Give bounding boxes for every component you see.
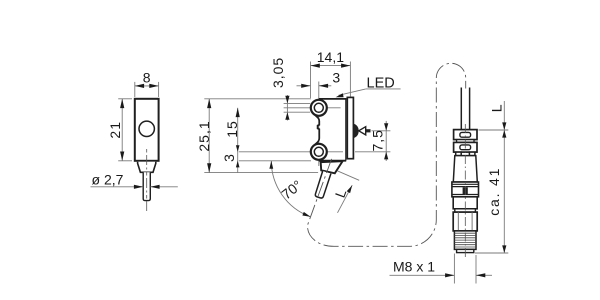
- dimension o 2,7 arrows: [134, 185, 160, 189]
- svg-text:8: 8: [143, 69, 151, 85]
- strain relief block B: [454, 142, 477, 152]
- wire: horizontal extension of body bottom (70 deg reference): [239, 160, 311, 162]
- dimension 3 (top): [297, 85, 332, 87]
- L dimension line along cable: [338, 185, 353, 213]
- cable: [315, 171, 331, 198]
- wire: vertical line through holes x=318.8: [318, 82, 320, 167]
- neck below housing: [138, 162, 156, 173]
- hex body: [453, 212, 477, 231]
- svg-text:25,1: 25,1: [196, 120, 212, 151]
- svg-text:L: L: [488, 104, 504, 112]
- body bottom edge: [319, 160, 346, 162]
- dimension 7,5: [385, 121, 387, 161]
- svg-text:7,5: 7,5: [370, 129, 386, 151]
- dimension 8 arrows: [135, 84, 159, 88]
- face plate: [347, 97, 353, 158]
- wire: 7,5 bottom extension: [355, 151, 390, 153]
- svg-text:14,1: 14,1: [317, 49, 344, 65]
- lens bump on face: [354, 124, 359, 138]
- cable centerline and loop path: [308, 63, 466, 246]
- waist between bosses: [314, 114, 320, 146]
- svg-text:3,05: 3,05: [270, 57, 286, 88]
- lens circle: [139, 121, 154, 136]
- stem cylinder: [143, 172, 150, 200]
- notches: [456, 152, 462, 156]
- svg-text:M8 x 1: M8 x 1: [393, 259, 435, 275]
- LED leader arrow: [336, 93, 344, 97]
- wire: boot shoulder extension: [338, 171, 360, 180]
- taper section: [453, 156, 477, 182]
- ca. 41 dimension: [503, 130, 505, 253]
- optical axis open arrow: [359, 127, 366, 135]
- svg-text:ø 2,7: ø 2,7: [92, 172, 124, 188]
- cable boot: [321, 161, 343, 173]
- dimension 3,05: [286, 95, 288, 121]
- wire: horizontal extension line top edge (25,1 top): [204, 98, 311, 100]
- dimension 21 arrows: [120, 99, 124, 161]
- L dimension arrow: [347, 185, 353, 193]
- centerline of stem: [146, 149, 148, 213]
- mounting hole boss bottom: [311, 144, 327, 160]
- 70 degree arc: [271, 161, 310, 217]
- wire: bore lines 3,05: [284, 102, 311, 104]
- cable into connector: [460, 88, 462, 130]
- body right inner edge: [345, 98, 347, 161]
- wire: horizontal line through top hole center: [284, 107, 341, 109]
- thread tip: [457, 249, 474, 252]
- arc arrow top: [269, 161, 273, 169]
- dimension 15: [237, 108, 239, 173]
- groove: [455, 209, 476, 212]
- dimension 25,1: [208, 99, 210, 173]
- strain relief block A: [454, 130, 477, 140]
- waist: [457, 140, 474, 143]
- arc arrow bottom: [302, 212, 310, 217]
- svg-text:21: 21: [107, 121, 123, 139]
- sensor housing body (front view): [135, 99, 159, 161]
- svg-text:3: 3: [221, 154, 237, 162]
- mounting hole boss top: [311, 100, 327, 116]
- wire: extension lines for height 21: [118, 99, 132, 161]
- section C: [453, 197, 477, 209]
- LED leader line: [339, 89, 401, 95]
- wire: horizontal extension line bottom of neck (25,1 bottom): [204, 172, 318, 174]
- wire: extension lines for width 8: [135, 82, 159, 97]
- wire: vertical extension right x=350.4: [349, 62, 351, 97]
- svg-text:15: 15: [224, 120, 240, 138]
- wire: vertical extension left tangent x=310.5: [310, 62, 312, 99]
- dimension 3 (bottom): [236, 161, 240, 168]
- connector centerline: [464, 124, 466, 260]
- svg-text:3: 3: [332, 69, 340, 85]
- dimension o 2,7 leader lines: [91, 186, 178, 188]
- thread M8: [454, 231, 476, 250]
- ribbed section: [452, 182, 479, 197]
- wire: optical axis line to 7,5: [372, 130, 391, 132]
- dimension 14,1: [311, 65, 351, 67]
- M8 x 1 dimension: [390, 254, 493, 284]
- svg-text:ca. 41: ca. 41: [486, 167, 502, 216]
- wire: horizontal line through bottom hole center: [239, 151, 343, 153]
- L dimension (cable length, right): [503, 101, 505, 130]
- body top edge: [319, 98, 346, 100]
